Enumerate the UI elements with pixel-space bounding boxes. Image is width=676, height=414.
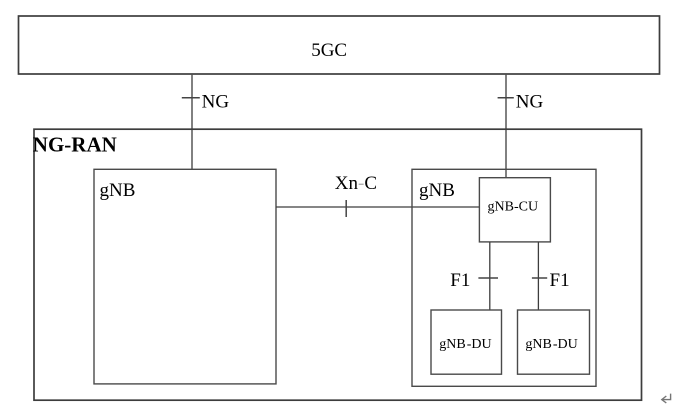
box gNB right: [412, 169, 596, 386]
tick F1 left: [478, 277, 498, 279]
tick NG right: [498, 97, 514, 99]
box gNB left: [94, 169, 276, 384]
svg-text:gNB-CU: gNB-CU: [488, 199, 539, 214]
box gNB-CU: [479, 178, 550, 242]
svg-text:F1: F1: [450, 270, 470, 291]
svg-text:5GC: 5GC: [311, 40, 347, 61]
tick F1 right: [532, 277, 547, 279]
svg-text:gNB: gNB: [419, 180, 455, 201]
box NG-RAN: [34, 129, 642, 400]
paragraph return mark: [662, 394, 671, 403]
wire NG left (5GC to left gNB): [191, 75, 193, 170]
box gNB-DU left: [431, 310, 502, 374]
svg-text:Xn-C: Xn-C: [335, 173, 377, 194]
tick NG left: [182, 97, 200, 99]
tick Xn-C: [345, 200, 347, 217]
wire Xn-C (left gNB to gNB-CU): [276, 206, 479, 208]
box gNB-DU right: [518, 310, 590, 374]
svg-text:NG: NG: [202, 91, 230, 112]
svg-text:NG: NG: [516, 91, 544, 112]
svg-text:gNB-DU: gNB-DU: [525, 337, 577, 352]
svg-text:F1: F1: [550, 270, 570, 291]
wire F1 left (gNB-CU to left gNB-DU): [489, 242, 491, 310]
wire NG right (5GC to gNB-CU): [505, 75, 507, 178]
svg-text:gNB: gNB: [100, 180, 136, 201]
box 5GC: [19, 16, 660, 74]
svg-text:gNB-DU: gNB-DU: [439, 337, 491, 352]
wire F1 right (gNB-CU to right gNB-DU): [537, 242, 539, 310]
svg-text:NG-RAN: NG-RAN: [33, 133, 117, 157]
